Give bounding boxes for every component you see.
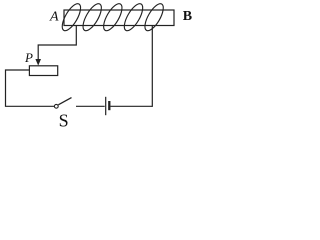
battery cell: short thick plate (-) [108, 101, 110, 110]
wire: right riser up to coil bottom [151, 25, 153, 107]
solenoid core rectangle (coil A-B) [64, 10, 174, 26]
svg-text:S: S [59, 111, 69, 131]
wire: coil left lead down, across, and down to rheostat wiper [38, 26, 76, 61]
wire: battery to right riser [111, 105, 153, 107]
rheostat wiper arrowhead [35, 59, 41, 66]
rheostat P body [29, 66, 57, 76]
coil winding turns (5 tilted loops) [59, 1, 167, 33]
wire: switch right contact to battery [76, 105, 105, 107]
svg-text:P: P [24, 50, 33, 65]
switch S pivot circle [54, 104, 58, 108]
battery cell: long thin plate (+) [105, 97, 107, 115]
wire: rheostat left terminal to bottom-left corner and along bottom to switch [6, 70, 55, 106]
svg-text:B: B [183, 9, 192, 24]
svg-text:A: A [49, 10, 59, 25]
switch S blade (open) [58, 98, 71, 105]
